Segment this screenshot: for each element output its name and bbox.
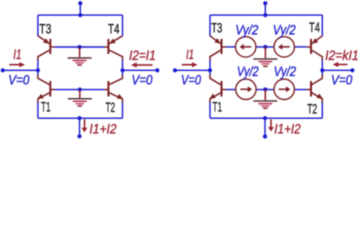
wire left port V=0: [3, 69, 38, 71]
node top terminal: [263, 1, 267, 5]
ground upper-right circuit: [253, 47, 277, 66]
svg-text:V=0: V=0: [181, 73, 201, 89]
node left port terminal: [173, 68, 177, 72]
node bottom terminal: [263, 134, 267, 138]
transistor T3: [38, 36, 55, 60]
wire right column lower: [321, 102, 323, 118]
svg-text:V=0: V=0: [8, 72, 29, 88]
wire upper base rail: [55, 46, 105, 48]
wire top supply stub: [79, 3, 81, 15]
wire left column lower: [209, 102, 211, 118]
svg-text:V=0: V=0: [132, 72, 153, 88]
svg-text:I2=kI1: I2=kI1: [325, 48, 359, 64]
node top rail junction: [263, 13, 267, 17]
svg-text:I1+I2: I1+I2: [89, 122, 116, 138]
wire bottom rail (left circuit): [38, 117, 123, 119]
wire left column upper: [37, 15, 39, 36]
ground lower-left circuit: [68, 90, 92, 106]
wire right column middle: [321, 60, 323, 76]
right circuit: bridge with Vy/2 current sources: [173, 1, 359, 138]
wire right column upper: [321, 15, 323, 36]
svg-text:I2=I1: I2=I1: [129, 48, 156, 64]
node left port junction: [208, 68, 212, 72]
svg-text:I1: I1: [13, 47, 21, 63]
arrow I1 into left port (right circuit): [182, 62, 198, 67]
node top rail junction: [78, 13, 82, 17]
current source Vy/2 lower-right: [274, 79, 294, 99]
node right port terminal: [350, 68, 354, 72]
ground lower-right circuit: [253, 89, 277, 108]
wire lower-right source to T2 base: [294, 89, 306, 91]
wire top supply stub: [264, 3, 266, 15]
wire upper-right source to T4 base: [294, 46, 306, 48]
wire right port V=0: [123, 69, 158, 71]
svg-text:T4: T4: [309, 20, 320, 36]
node right port terminal: [155, 68, 159, 72]
wire between lower sources: [256, 89, 274, 91]
transistor T1 (right): [209, 75, 225, 103]
wire top rail (right circuit): [210, 14, 322, 16]
wire top rail (left circuit): [38, 14, 123, 16]
transistor T4 (right): [307, 36, 323, 60]
node upper center junction: [263, 45, 267, 49]
svg-text:T4: T4: [108, 21, 120, 37]
node bottom terminal: [77, 134, 81, 138]
arrow I1+I2 output: [82, 119, 88, 132]
svg-text:T1: T1: [41, 99, 51, 115]
wire right column lower: [122, 102, 124, 118]
node lower center junction: [263, 87, 267, 91]
arrow I1 into left port: [9, 62, 25, 67]
node top terminal: [78, 1, 82, 5]
svg-text:Vy/2: Vy/2: [237, 64, 259, 80]
wire right port V=0: [322, 69, 352, 71]
wire left column middle: [209, 60, 211, 76]
wire right column upper: [122, 15, 124, 36]
svg-text:I1: I1: [186, 47, 194, 63]
svg-text:T3: T3: [211, 21, 222, 37]
svg-text:Vy/2: Vy/2: [235, 23, 258, 39]
transistor T1: [37, 75, 54, 103]
wire between upper sources: [256, 46, 274, 48]
wire lower base rail: [55, 89, 105, 91]
svg-text:I1+I2: I1+I2: [274, 121, 300, 137]
node bottom rail junction: [78, 116, 82, 120]
transistor T3 (right): [210, 36, 226, 60]
current source Vy/2 upper-left: [236, 37, 256, 57]
svg-text:T3: T3: [39, 22, 51, 38]
svg-text:T1: T1: [213, 99, 223, 115]
node right port junction: [320, 68, 324, 72]
wire T1 base to lower-left source: [226, 89, 236, 91]
wire bottom output stub: [79, 118, 81, 136]
wire T3 base to upper-left source: [226, 46, 236, 48]
current source Vy/2 lower-left: [236, 79, 256, 99]
svg-text:T2: T2: [307, 101, 317, 117]
wire bottom output stub: [264, 118, 266, 136]
arrow I2 into right port (right circuit): [333, 62, 348, 67]
svg-text:Vy/2: Vy/2: [273, 23, 296, 39]
node right port junction: [121, 68, 125, 72]
ground upper-left circuit: [68, 47, 92, 65]
arrow I1+I2 output (right circuit): [268, 119, 274, 131]
node left port terminal: [1, 68, 5, 72]
wire left column lower: [37, 102, 39, 118]
transistor T4: [104, 36, 122, 60]
node left port junction: [36, 68, 40, 72]
node bottom rail junction: [263, 116, 267, 120]
svg-text:V=0: V=0: [331, 72, 352, 88]
current source Vy/2 upper-right: [274, 37, 294, 57]
wire bottom rail (right circuit): [210, 117, 322, 119]
transistor T2 (right): [307, 75, 323, 103]
arrow I2 into right port: [131, 62, 153, 67]
wire left column upper: [209, 15, 211, 36]
node upper base junction: [78, 45, 82, 49]
svg-text:T2: T2: [106, 100, 116, 116]
svg-text:Vy/2: Vy/2: [274, 64, 296, 80]
wire left column middle: [37, 60, 39, 76]
transistor T2: [104, 75, 123, 103]
node lower base junction: [78, 88, 82, 92]
wire left port V=0: [175, 69, 210, 71]
wire right column middle: [122, 60, 124, 76]
left circuit: ideal transistor bridge: [1, 1, 160, 138]
